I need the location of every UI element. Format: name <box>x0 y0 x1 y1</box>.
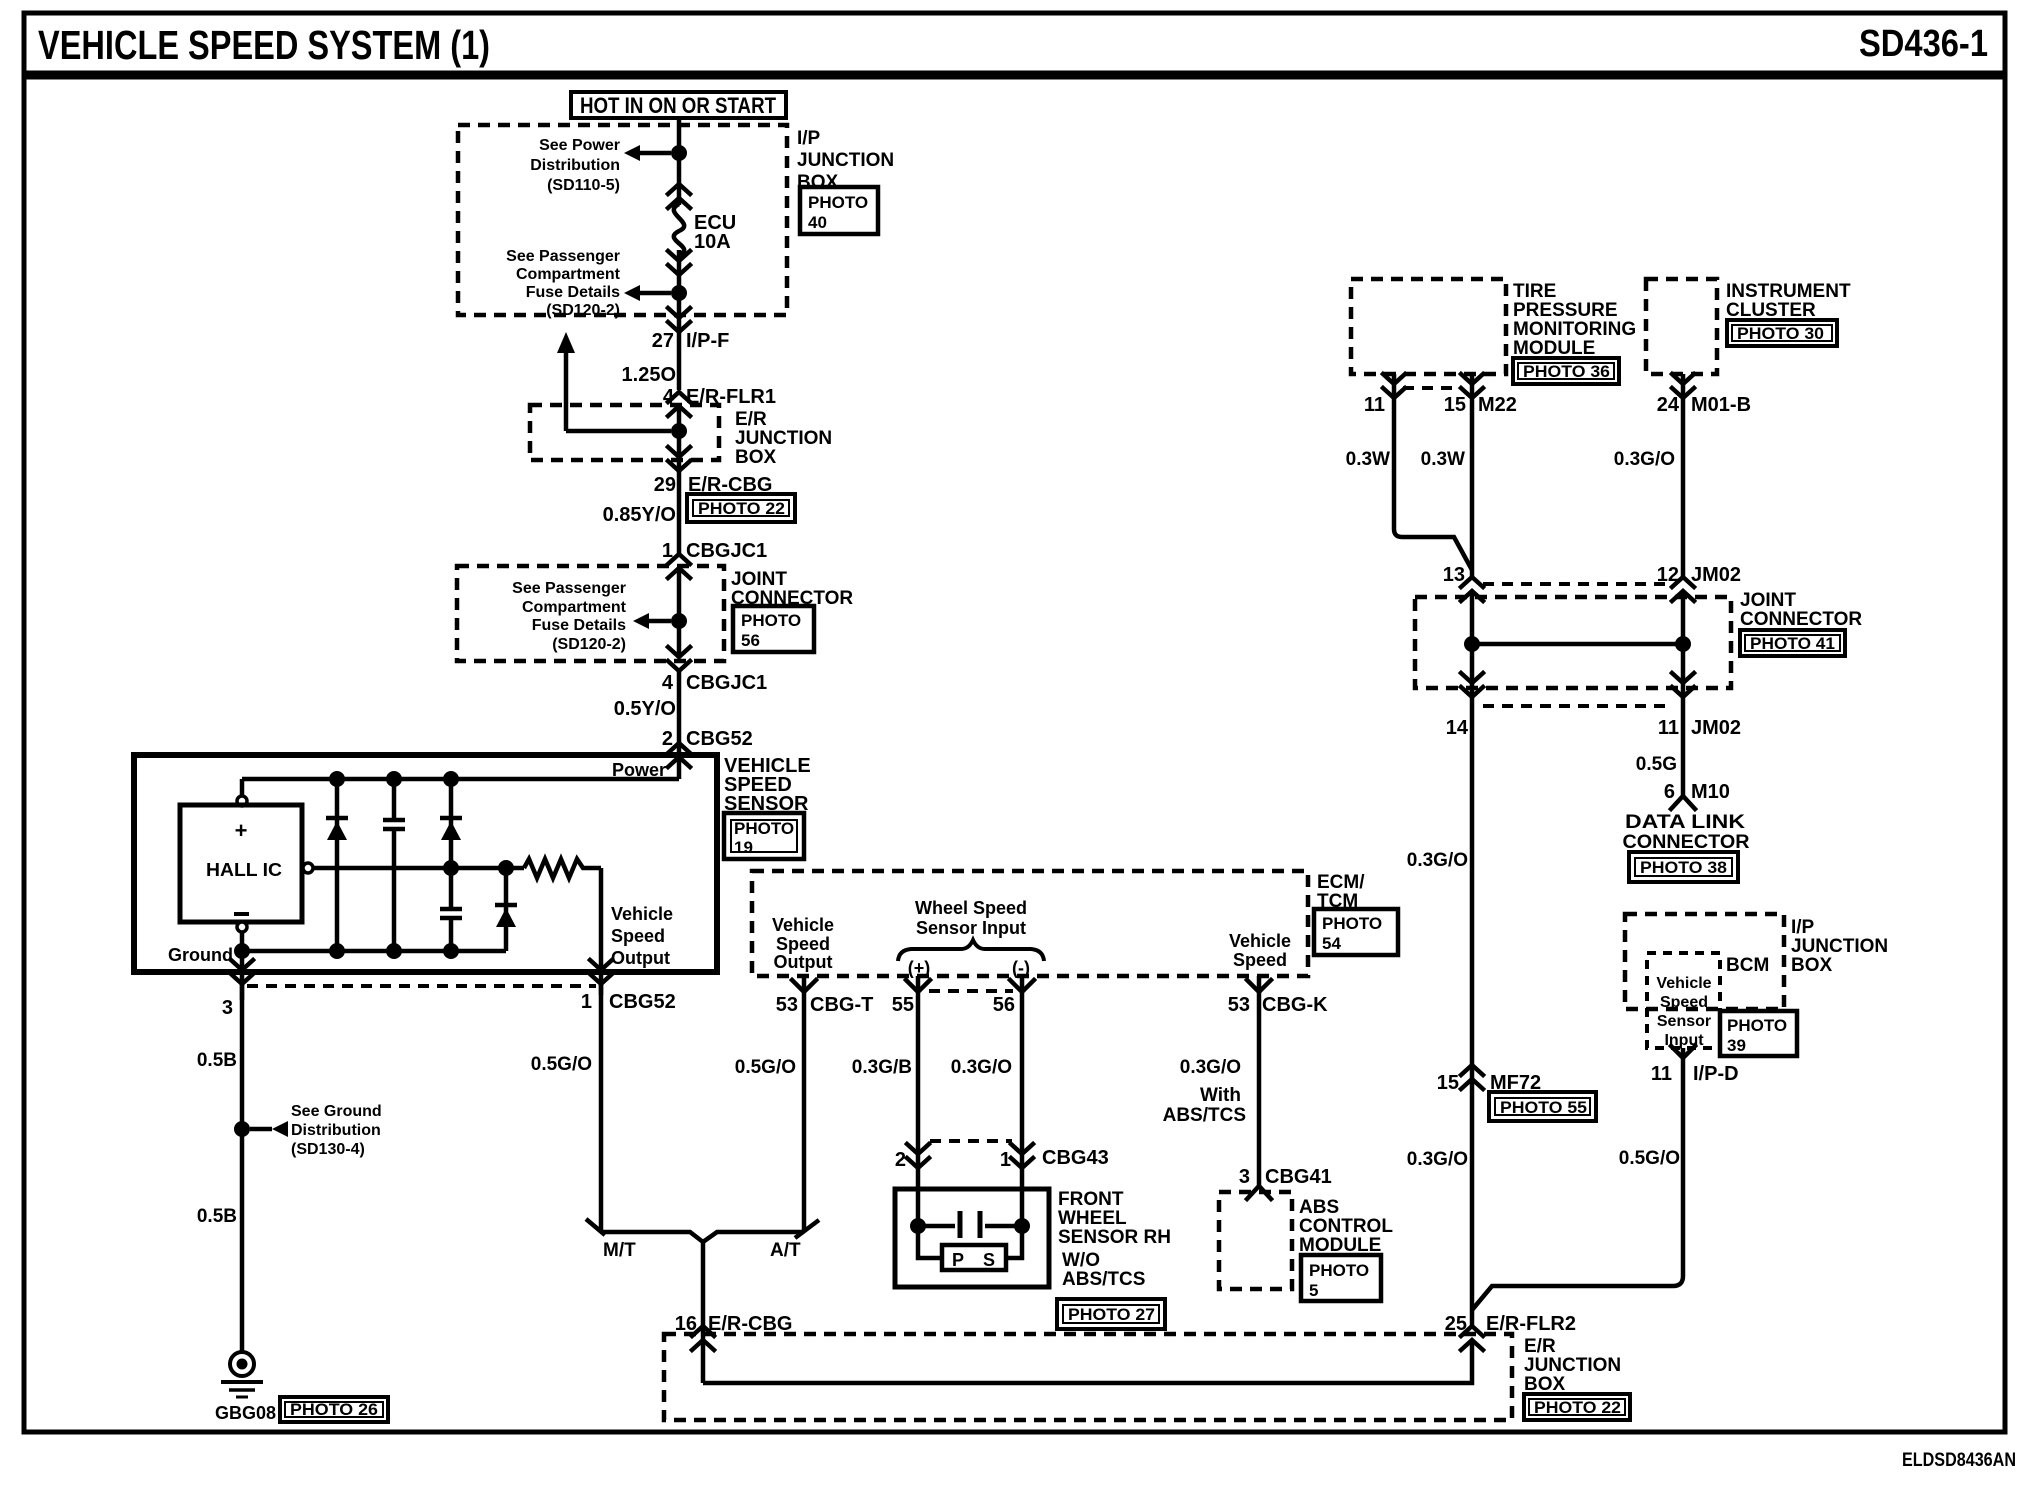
fuse holder chevrons (top) <box>668 184 690 208</box>
svg-text:CONTROL: CONTROL <box>1299 1216 1393 1237</box>
svg-text:0.85Y/O: 0.85Y/O <box>603 504 676 526</box>
svg-text:2: 2 <box>662 728 673 750</box>
svg-text:1.25O: 1.25O <box>622 364 676 386</box>
pin 2 chevrons <box>907 1144 929 1168</box>
PHOTO 55 box <box>1489 1092 1596 1121</box>
rail junction nodes <box>329 771 345 787</box>
svg-text:PHOTO 27: PHOTO 27 <box>1068 1305 1155 1324</box>
reference text See Passenger Compartment 2 <box>512 580 627 653</box>
svg-text:WHEEL: WHEEL <box>1058 1208 1127 1229</box>
svg-text:56: 56 <box>741 631 760 650</box>
svg-text:11: 11 <box>1651 1063 1672 1085</box>
pin 55 <box>916 976 921 1165</box>
node C in E/R box <box>671 423 687 439</box>
svg-text:JOINT: JOINT <box>1740 590 1796 611</box>
pin 24 M01-B <box>1672 374 1694 398</box>
svg-text:Vehicle: Vehicle <box>611 904 673 924</box>
svg-text:Sensor: Sensor <box>1657 1013 1711 1030</box>
svg-text:HOT IN ON OR START: HOT IN ON OR START <box>580 93 776 118</box>
svg-text:Speed: Speed <box>1233 950 1287 970</box>
HOT IN ON OR START box <box>571 92 786 118</box>
M22 connector dashed link <box>1403 386 1461 390</box>
svg-text:5: 5 <box>1309 1281 1318 1300</box>
BCM box (dashed) <box>1647 953 1720 1048</box>
svg-text:PHOTO: PHOTO <box>741 611 801 630</box>
pin 3 CBG41 terminal <box>1247 1186 1271 1199</box>
svg-text:24: 24 <box>1657 394 1680 416</box>
PHOTO 5 box <box>1301 1255 1381 1301</box>
svg-text:14: 14 <box>1446 717 1469 739</box>
svg-text:E/R: E/R <box>1524 1336 1556 1357</box>
sensor coil capacitor <box>918 1211 1022 1238</box>
svg-text:ABS/TCS: ABS/TCS <box>1062 1269 1145 1290</box>
svg-text:With: With <box>1200 1085 1241 1106</box>
svg-text:I/P: I/P <box>797 128 821 149</box>
svg-text:27: 27 <box>652 330 674 352</box>
svg-text:Ground: Ground <box>168 945 233 965</box>
sensor entry chevrons <box>668 743 690 767</box>
svg-text:Output: Output <box>774 952 833 972</box>
diode D3 branch <box>495 868 517 951</box>
svg-text:CONNECTOR: CONNECTOR <box>1740 609 1862 630</box>
svg-text:Vehicle: Vehicle <box>1656 975 1711 992</box>
PHOTO 19 box <box>724 813 804 859</box>
ABS control module box (dashed) <box>1219 1192 1292 1289</box>
svg-text:INSTRUMENT: INSTRUMENT <box>1726 281 1851 302</box>
wire merged down <box>701 1242 706 1383</box>
svg-text:11: 11 <box>1364 394 1385 416</box>
wire to up-arrow (to SD120-2 ref) <box>557 332 671 431</box>
svg-text:CLUSTER: CLUSTER <box>1726 300 1816 321</box>
svg-text:BOX: BOX <box>735 447 777 468</box>
svg-text:CBG43: CBG43 <box>1042 1147 1109 1169</box>
resistor R1 <box>524 859 601 878</box>
svg-text:See Passenger: See Passenger <box>512 580 626 597</box>
Vehicle Speed Sensor Input label <box>1656 975 1711 1049</box>
svg-text:PHOTO 36: PHOTO 36 <box>1523 362 1610 381</box>
svg-text:W/O: W/O <box>1062 1250 1100 1271</box>
bus bar <box>1472 642 1683 647</box>
svg-text:PRESSURE: PRESSURE <box>1513 300 1618 321</box>
svg-text:M/T: M/T <box>603 1240 636 1261</box>
svg-text:19: 19 <box>734 838 753 857</box>
svg-text:56: 56 <box>993 994 1015 1016</box>
wire: signal rail (middle) <box>313 866 524 871</box>
node A (power tap) <box>671 145 687 161</box>
svg-text:BOX: BOX <box>1791 955 1833 976</box>
svg-text:0.5G/O: 0.5G/O <box>531 1054 592 1075</box>
wire 0.5G <box>1681 696 1686 796</box>
svg-text:PHOTO 22: PHOTO 22 <box>698 499 785 518</box>
svg-text:SENSOR RH: SENSOR RH <box>1058 1227 1171 1248</box>
svg-text:54: 54 <box>1322 934 1341 953</box>
wire 0.5B down <box>240 984 245 1352</box>
svg-text:P: P <box>952 1250 964 1270</box>
svg-text:PHOTO 30: PHOTO 30 <box>1737 324 1824 343</box>
svg-text:Compartment: Compartment <box>516 266 621 283</box>
fuse ECU 10A <box>674 204 684 255</box>
svg-text:E/R: E/R <box>735 409 767 430</box>
I/P junction box label <box>797 128 894 193</box>
svg-text:PHOTO 38: PHOTO 38 <box>1640 858 1727 877</box>
svg-text:TIRE: TIRE <box>1513 281 1556 302</box>
svg-text:M10: M10 <box>1691 781 1730 803</box>
svg-text:CBGJC1: CBGJC1 <box>686 672 767 694</box>
brace <box>898 940 1044 961</box>
svg-text:Fuse Details: Fuse Details <box>526 284 620 301</box>
svg-text:11: 11 <box>1658 717 1679 739</box>
wire inside junction box <box>703 1341 1472 1383</box>
svg-text:GBG08: GBG08 <box>215 1403 276 1423</box>
M/T option tick <box>586 1219 605 1235</box>
joint connector box (dashed) <box>457 566 724 661</box>
svg-text:0.3G/O: 0.3G/O <box>1407 1149 1468 1170</box>
svg-text:I/P-D: I/P-D <box>1693 1063 1739 1085</box>
svg-text:Speed: Speed <box>776 934 830 954</box>
arrow to See Passenger ref 2 <box>633 613 671 629</box>
wire M/T branch <box>599 984 604 1232</box>
svg-text:PHOTO 41: PHOTO 41 <box>1750 634 1835 653</box>
svg-text:PHOTO: PHOTO <box>808 193 868 212</box>
PHOTO 54 box <box>1314 909 1398 955</box>
wires through joint connector <box>1470 592 1475 696</box>
Wheel Speed Sensor Input label <box>915 898 1027 938</box>
merge bar with dip <box>601 1232 804 1242</box>
PHOTO 30 box <box>1727 320 1837 346</box>
wire 0.5G/O from BCM to pin 25 <box>1472 1048 1683 1310</box>
svg-text:0.5G: 0.5G <box>1636 754 1677 775</box>
node ground tap <box>234 943 250 959</box>
svg-text:Distribution: Distribution <box>530 157 620 174</box>
svg-text:JUNCTION: JUNCTION <box>1791 936 1888 957</box>
svg-text:ABS: ABS <box>1299 1197 1339 1218</box>
hall ic top lead <box>240 779 245 796</box>
svg-text:(SD120-2): (SD120-2) <box>546 302 620 319</box>
svg-text:See Passenger: See Passenger <box>506 248 620 265</box>
P S box <box>942 1245 1006 1270</box>
svg-text:13: 13 <box>1443 564 1465 586</box>
wire 0.3G/O from pin 14 down to MF72 <box>1470 696 1475 1327</box>
title rule <box>24 71 2005 80</box>
svg-text:+: + <box>235 818 248 843</box>
svg-text:Vehicle: Vehicle <box>772 915 834 935</box>
wire into sensor <box>677 670 682 779</box>
svg-text:(+): (+) <box>908 958 931 978</box>
FRONT WHEEL SENSOR RH label <box>1058 1189 1171 1248</box>
svg-text:10A: 10A <box>694 231 731 253</box>
svg-text:0.5G/O: 0.5G/O <box>735 1057 796 1078</box>
svg-text:JUNCTION: JUNCTION <box>797 150 894 171</box>
Vehicle Speed (ECM pin) label <box>1229 931 1291 970</box>
E/R box exit chevrons <box>668 447 690 471</box>
svg-text:Distribution: Distribution <box>291 1122 381 1139</box>
connector CBG43 dashed link <box>930 1139 1012 1143</box>
connector CBG52 dashed link <box>247 984 596 988</box>
wire: power rail (top) <box>242 777 679 782</box>
svg-text:Fuse Details: Fuse Details <box>532 617 626 634</box>
svg-text:Sensor Input: Sensor Input <box>916 918 1026 938</box>
svg-text:ELDSD8436AN: ELDSD8436AN <box>1902 1450 2016 1471</box>
svg-text:PHOTO: PHOTO <box>1309 1261 1369 1280</box>
svg-text:BOX: BOX <box>797 172 839 193</box>
wire: speed output <box>599 868 604 995</box>
svg-text:MONITORING: MONITORING <box>1513 319 1636 340</box>
svg-text:CBG41: CBG41 <box>1265 1166 1332 1188</box>
pin 11 (TPMS) <box>1383 374 1405 398</box>
PHOTO 27 box <box>1057 1299 1165 1329</box>
svg-text:I/P: I/P <box>1791 917 1815 938</box>
joint connector entry chevrons <box>668 554 690 578</box>
Vehicle Speed Output label <box>611 904 673 968</box>
svg-text:JUNCTION: JUNCTION <box>735 428 832 449</box>
svg-text:0.5B: 0.5B <box>197 1050 237 1071</box>
I/P junction box (dashed) <box>458 125 787 315</box>
svg-text:53: 53 <box>776 994 798 1016</box>
A/T option tick <box>795 1220 819 1238</box>
svg-text:ABS/TCS: ABS/TCS <box>1163 1105 1246 1126</box>
svg-text:Output: Output <box>611 948 670 968</box>
svg-text:3: 3 <box>1239 1166 1250 1188</box>
svg-text:E/R-FLR2: E/R-FLR2 <box>1486 1313 1576 1335</box>
svg-text:Speed: Speed <box>611 926 665 946</box>
ECM connector dashed link <box>929 989 1013 993</box>
capacitor C2 branch <box>440 868 462 951</box>
PHOTO 38 box <box>1629 852 1738 882</box>
svg-text:See Ground: See Ground <box>291 1103 382 1120</box>
JM02 connector dashed link (top) <box>1483 582 1671 586</box>
svg-text:0.3W: 0.3W <box>1346 449 1390 470</box>
E/R junction box (dashed) <box>530 405 719 460</box>
svg-text:HALL IC: HALL IC <box>206 860 282 880</box>
svg-text:29: 29 <box>654 474 676 496</box>
arrow to See Passenger Compartment <box>624 285 671 301</box>
svg-text:PHOTO 55: PHOTO 55 <box>1500 1098 1587 1117</box>
capacitor C1 branch <box>383 779 405 951</box>
wire: battery feed vertical <box>677 118 682 205</box>
wires into wheel sensor <box>916 1165 921 1226</box>
svg-text:A/T: A/T <box>770 1240 801 1261</box>
svg-text:(SD130-4): (SD130-4) <box>291 1141 365 1158</box>
svg-text:FRONT: FRONT <box>1058 1189 1124 1210</box>
fuse holder chevrons (bottom) <box>668 251 690 275</box>
svg-text:JUNCTION: JUNCTION <box>1524 1355 1621 1376</box>
svg-text:M22: M22 <box>1478 394 1517 416</box>
wire through joint connector <box>677 569 682 656</box>
svg-text:0.5B: 0.5B <box>197 1206 237 1227</box>
pin 53 CBG-K <box>1257 976 1262 1186</box>
PHOTO 26 box <box>280 1397 388 1422</box>
pin 11 I/P-D <box>1671 1046 1695 1058</box>
svg-text:CBG52: CBG52 <box>609 991 676 1013</box>
svg-text:4: 4 <box>662 672 674 694</box>
svg-text:1: 1 <box>1000 1149 1011 1171</box>
wire through E/R junction box <box>677 407 682 555</box>
svg-text:SD436-1: SD436-1 <box>1859 23 1988 65</box>
svg-text:PHOTO: PHOTO <box>1322 914 1382 933</box>
svg-text:Compartment: Compartment <box>522 599 627 616</box>
svg-text:E/R-CBG: E/R-CBG <box>708 1313 792 1335</box>
svg-text:CBG52: CBG52 <box>686 728 753 750</box>
svg-text:BCM: BCM <box>1726 955 1769 976</box>
pin 15 MF72 <box>1461 1065 1483 1089</box>
svg-text:BOX: BOX <box>1524 1374 1566 1395</box>
node ground distribution tap <box>234 1121 250 1137</box>
wires to P S element <box>918 1226 942 1258</box>
pin 1 chevrons <box>1011 1144 1033 1168</box>
svg-text:3: 3 <box>222 997 233 1019</box>
Vehicle Speed Output (ECM pin) label <box>772 915 834 972</box>
HALL IC block <box>180 805 302 922</box>
svg-text:Speed: Speed <box>1660 994 1708 1011</box>
diode D1 branch <box>326 779 348 951</box>
front wheel sensor RH enclosure <box>895 1189 1049 1287</box>
svg-text:0.3G/O: 0.3G/O <box>1180 1057 1241 1078</box>
pin 15 M22 <box>1461 374 1483 398</box>
svg-text:0.5Y/O: 0.5Y/O <box>614 698 676 720</box>
svg-text:VEHICLE SPEED SYSTEM (1): VEHICLE SPEED SYSTEM (1) <box>38 22 490 68</box>
wire 0.3G/O (pin 24) <box>1681 374 1686 578</box>
pin 25 E/R-FLR2 <box>1461 1326 1483 1350</box>
pin 53 CBG-T <box>802 976 807 1232</box>
PHOTO 22 box (top) <box>687 494 795 522</box>
svg-text:25: 25 <box>1445 1313 1467 1335</box>
svg-text:15: 15 <box>1444 394 1466 416</box>
PHOTO 39 box <box>1720 1011 1797 1056</box>
svg-text:39: 39 <box>1727 1036 1746 1055</box>
svg-text:See Power: See Power <box>539 137 620 154</box>
svg-text:CONNECTOR: CONNECTOR <box>1623 832 1750 853</box>
reference text See Power Distribution <box>530 137 620 194</box>
ground symbol GBG08 <box>221 1352 263 1397</box>
PHOTO 36 box <box>1513 358 1619 384</box>
pin 3 exit chevrons <box>240 951 245 1000</box>
svg-text:ECM/: ECM/ <box>1317 872 1365 893</box>
svg-text:(-): (-) <box>1012 958 1030 978</box>
svg-text:Wheel Speed: Wheel Speed <box>915 898 1027 918</box>
pin 1 exit chevrons <box>590 960 612 984</box>
node D in joint connector <box>671 613 687 629</box>
svg-text:0.3G/O: 0.3G/O <box>1614 449 1675 470</box>
hall ic right lead <box>303 863 313 873</box>
svg-text:55: 55 <box>892 994 914 1016</box>
svg-text:15: 15 <box>1437 1072 1459 1094</box>
svg-text:S: S <box>983 1250 995 1270</box>
svg-text:6: 6 <box>1664 781 1675 803</box>
svg-text:53: 53 <box>1228 994 1250 1016</box>
wire: ground rail (bottom) <box>242 949 506 954</box>
svg-text:DATA LINK: DATA LINK <box>1625 812 1745 833</box>
PHOTO 56 box <box>733 606 814 652</box>
svg-text:JM02: JM02 <box>1691 564 1741 586</box>
svg-text:PHOTO 26: PHOTO 26 <box>290 1400 378 1419</box>
svg-text:2: 2 <box>895 1149 906 1171</box>
pin 6 M10 terminal <box>1671 796 1695 809</box>
svg-text:JOINT: JOINT <box>731 569 787 590</box>
pin 56 <box>1020 976 1025 1165</box>
svg-text:0.3G/B: 0.3G/B <box>852 1057 912 1078</box>
PHOTO 40 box <box>800 187 878 234</box>
pin 27 I/P-F connector <box>668 308 690 332</box>
svg-text:Vehicle: Vehicle <box>1229 931 1291 951</box>
PHOTO 41 box <box>1740 630 1845 656</box>
reference text See Passenger Compartment Fuse Details <box>506 248 621 319</box>
joint connector exit chevrons <box>1461 673 1483 697</box>
svg-text:0.3W: 0.3W <box>1421 449 1465 470</box>
svg-text:CBG-T: CBG-T <box>810 994 873 1016</box>
ECM/TCM box (dashed) <box>752 871 1308 976</box>
svg-text:CBG-K: CBG-K <box>1262 994 1328 1016</box>
svg-text:MODULE: MODULE <box>1513 338 1595 359</box>
svg-text:(SD110-5): (SD110-5) <box>547 177 620 194</box>
svg-text:PHOTO: PHOTO <box>1727 1016 1787 1035</box>
svg-text:M01-B: M01-B <box>1691 394 1751 416</box>
JM02 connector dashed link (bottom) <box>1483 704 1671 708</box>
vehicle speed sensor enclosure <box>134 755 717 972</box>
svg-text:40: 40 <box>808 213 827 232</box>
svg-text:0.3G/O: 0.3G/O <box>1407 850 1468 871</box>
svg-text:I/P-F: I/P-F <box>686 330 729 352</box>
arrow to See Power Distribution <box>624 145 671 161</box>
label VEHICLE SPEED SENSOR <box>724 755 811 815</box>
hall ic bottom lead <box>237 922 247 932</box>
diode D2 branch <box>440 779 462 868</box>
svg-text:CBGJC1: CBGJC1 <box>686 540 767 562</box>
svg-text:JM02: JM02 <box>1691 717 1741 739</box>
svg-text:0.5G/O: 0.5G/O <box>1619 1148 1680 1169</box>
svg-text:PHOTO 22: PHOTO 22 <box>1534 1398 1621 1417</box>
svg-text:1: 1 <box>581 991 592 1013</box>
DATA LINK CONNECTOR label <box>1623 812 1750 853</box>
wire 0.3W (pin 15) <box>1470 374 1475 578</box>
wire 0.3W (pin 11) <box>1394 374 1472 570</box>
node B (fuse output tap) <box>671 285 687 301</box>
svg-text:PHOTO: PHOTO <box>734 819 794 838</box>
joint connector exit chevrons <box>668 647 690 671</box>
arrow to See Ground Distribution <box>250 1121 288 1137</box>
svg-text:0.3G/O: 0.3G/O <box>951 1057 1012 1078</box>
PHOTO 22 box (bottom) <box>1524 1394 1630 1420</box>
svg-text:(SD120-2): (SD120-2) <box>552 636 626 653</box>
